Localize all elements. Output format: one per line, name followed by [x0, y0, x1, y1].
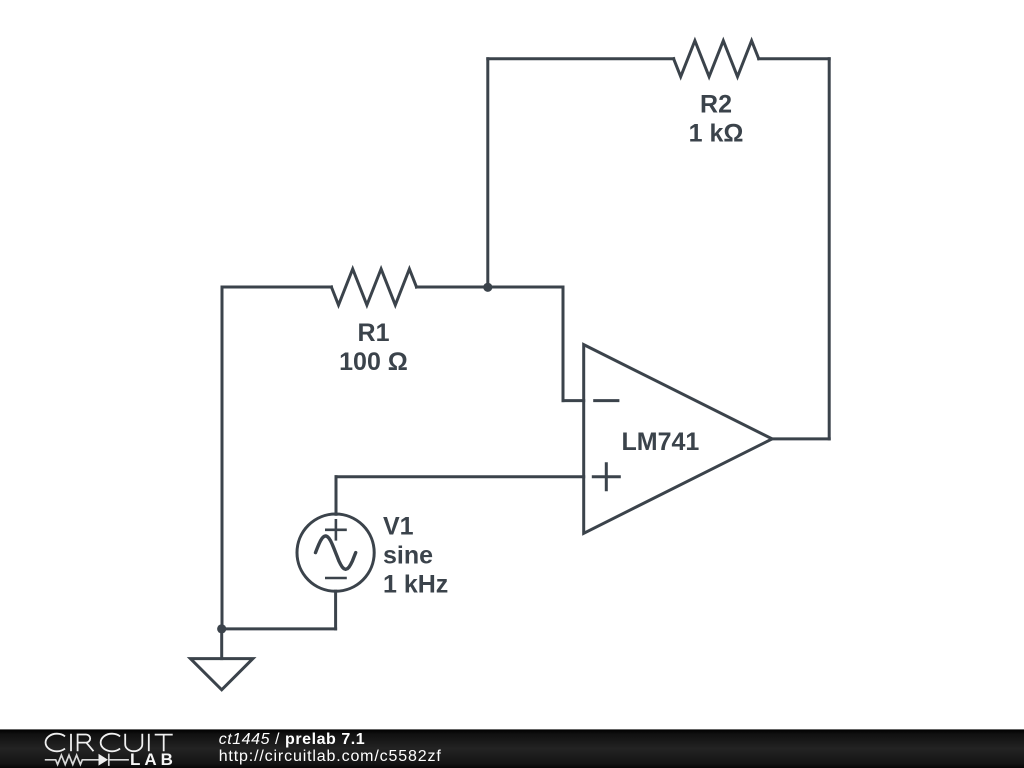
wire noninverting input	[336, 475, 584, 478]
logo wire resistor squiggle	[45, 755, 99, 764]
V1 minus sign	[326, 577, 345, 580]
wire V1 top lead	[335, 477, 338, 515]
svg-text:1 kΩ: 1 kΩ	[689, 119, 744, 147]
wire R1 left lead	[222, 286, 331, 289]
svg-text:100 Ω: 100 Ω	[339, 348, 408, 376]
wire ground stub	[220, 629, 223, 659]
wire right vertical down	[828, 59, 831, 439]
wire R1 to node A	[417, 286, 564, 289]
wire left vertical	[221, 287, 224, 629]
op-amp U1 triangle	[584, 345, 773, 534]
footer bar	[0, 729, 1024, 768]
logo letter I	[70, 734, 72, 751]
resistor R1	[331, 269, 416, 305]
wire output	[772, 437, 829, 440]
wire feedback up from node A	[486, 59, 489, 287]
logo letter R	[78, 735, 94, 752]
wire V1 bottom lead	[334, 591, 337, 629]
svg-text:http://circuitlab.com/c5582zf: http://circuitlab.com/c5582zf	[219, 748, 442, 765]
V1 sine symbol	[316, 536, 356, 569]
logo letter C2	[101, 734, 120, 752]
svg-text:LAB: LAB	[130, 750, 177, 768]
ground node junction dot	[217, 624, 226, 633]
logo letter T	[155, 735, 173, 752]
svg-text:sine: sine	[383, 542, 433, 570]
svg-text:R2: R2	[700, 91, 732, 119]
wire R2 right lead	[759, 57, 830, 60]
op-amp plus input symbol	[593, 464, 619, 490]
op-amp minus input symbol	[595, 399, 618, 402]
wire top to R2	[488, 57, 674, 60]
node A junction dot	[483, 283, 492, 292]
wire inverting input stub	[563, 399, 584, 402]
resistor R2	[674, 41, 759, 77]
wire node A to inverting input (vertical)	[562, 287, 565, 401]
ground symbol	[190, 659, 253, 690]
svg-text:LM741: LM741	[622, 428, 700, 456]
svg-text:1 kHz: 1 kHz	[383, 571, 448, 599]
voltage source V1 circle	[297, 514, 374, 591]
logo letter C	[46, 734, 65, 752]
logo letter I2	[148, 734, 150, 751]
logo wire to LAB	[109, 759, 129, 761]
V1 plus sign	[326, 520, 345, 539]
logo letter U	[125, 734, 142, 751]
svg-text:ct1445 / prelab 7.1: ct1445 / prelab 7.1	[219, 731, 366, 748]
logo diode triangle	[99, 754, 109, 766]
svg-text:R1: R1	[358, 319, 390, 347]
svg-text:V1: V1	[383, 513, 414, 541]
logo diode cathode bar	[108, 754, 110, 766]
wire bottom to ground node	[222, 627, 336, 630]
